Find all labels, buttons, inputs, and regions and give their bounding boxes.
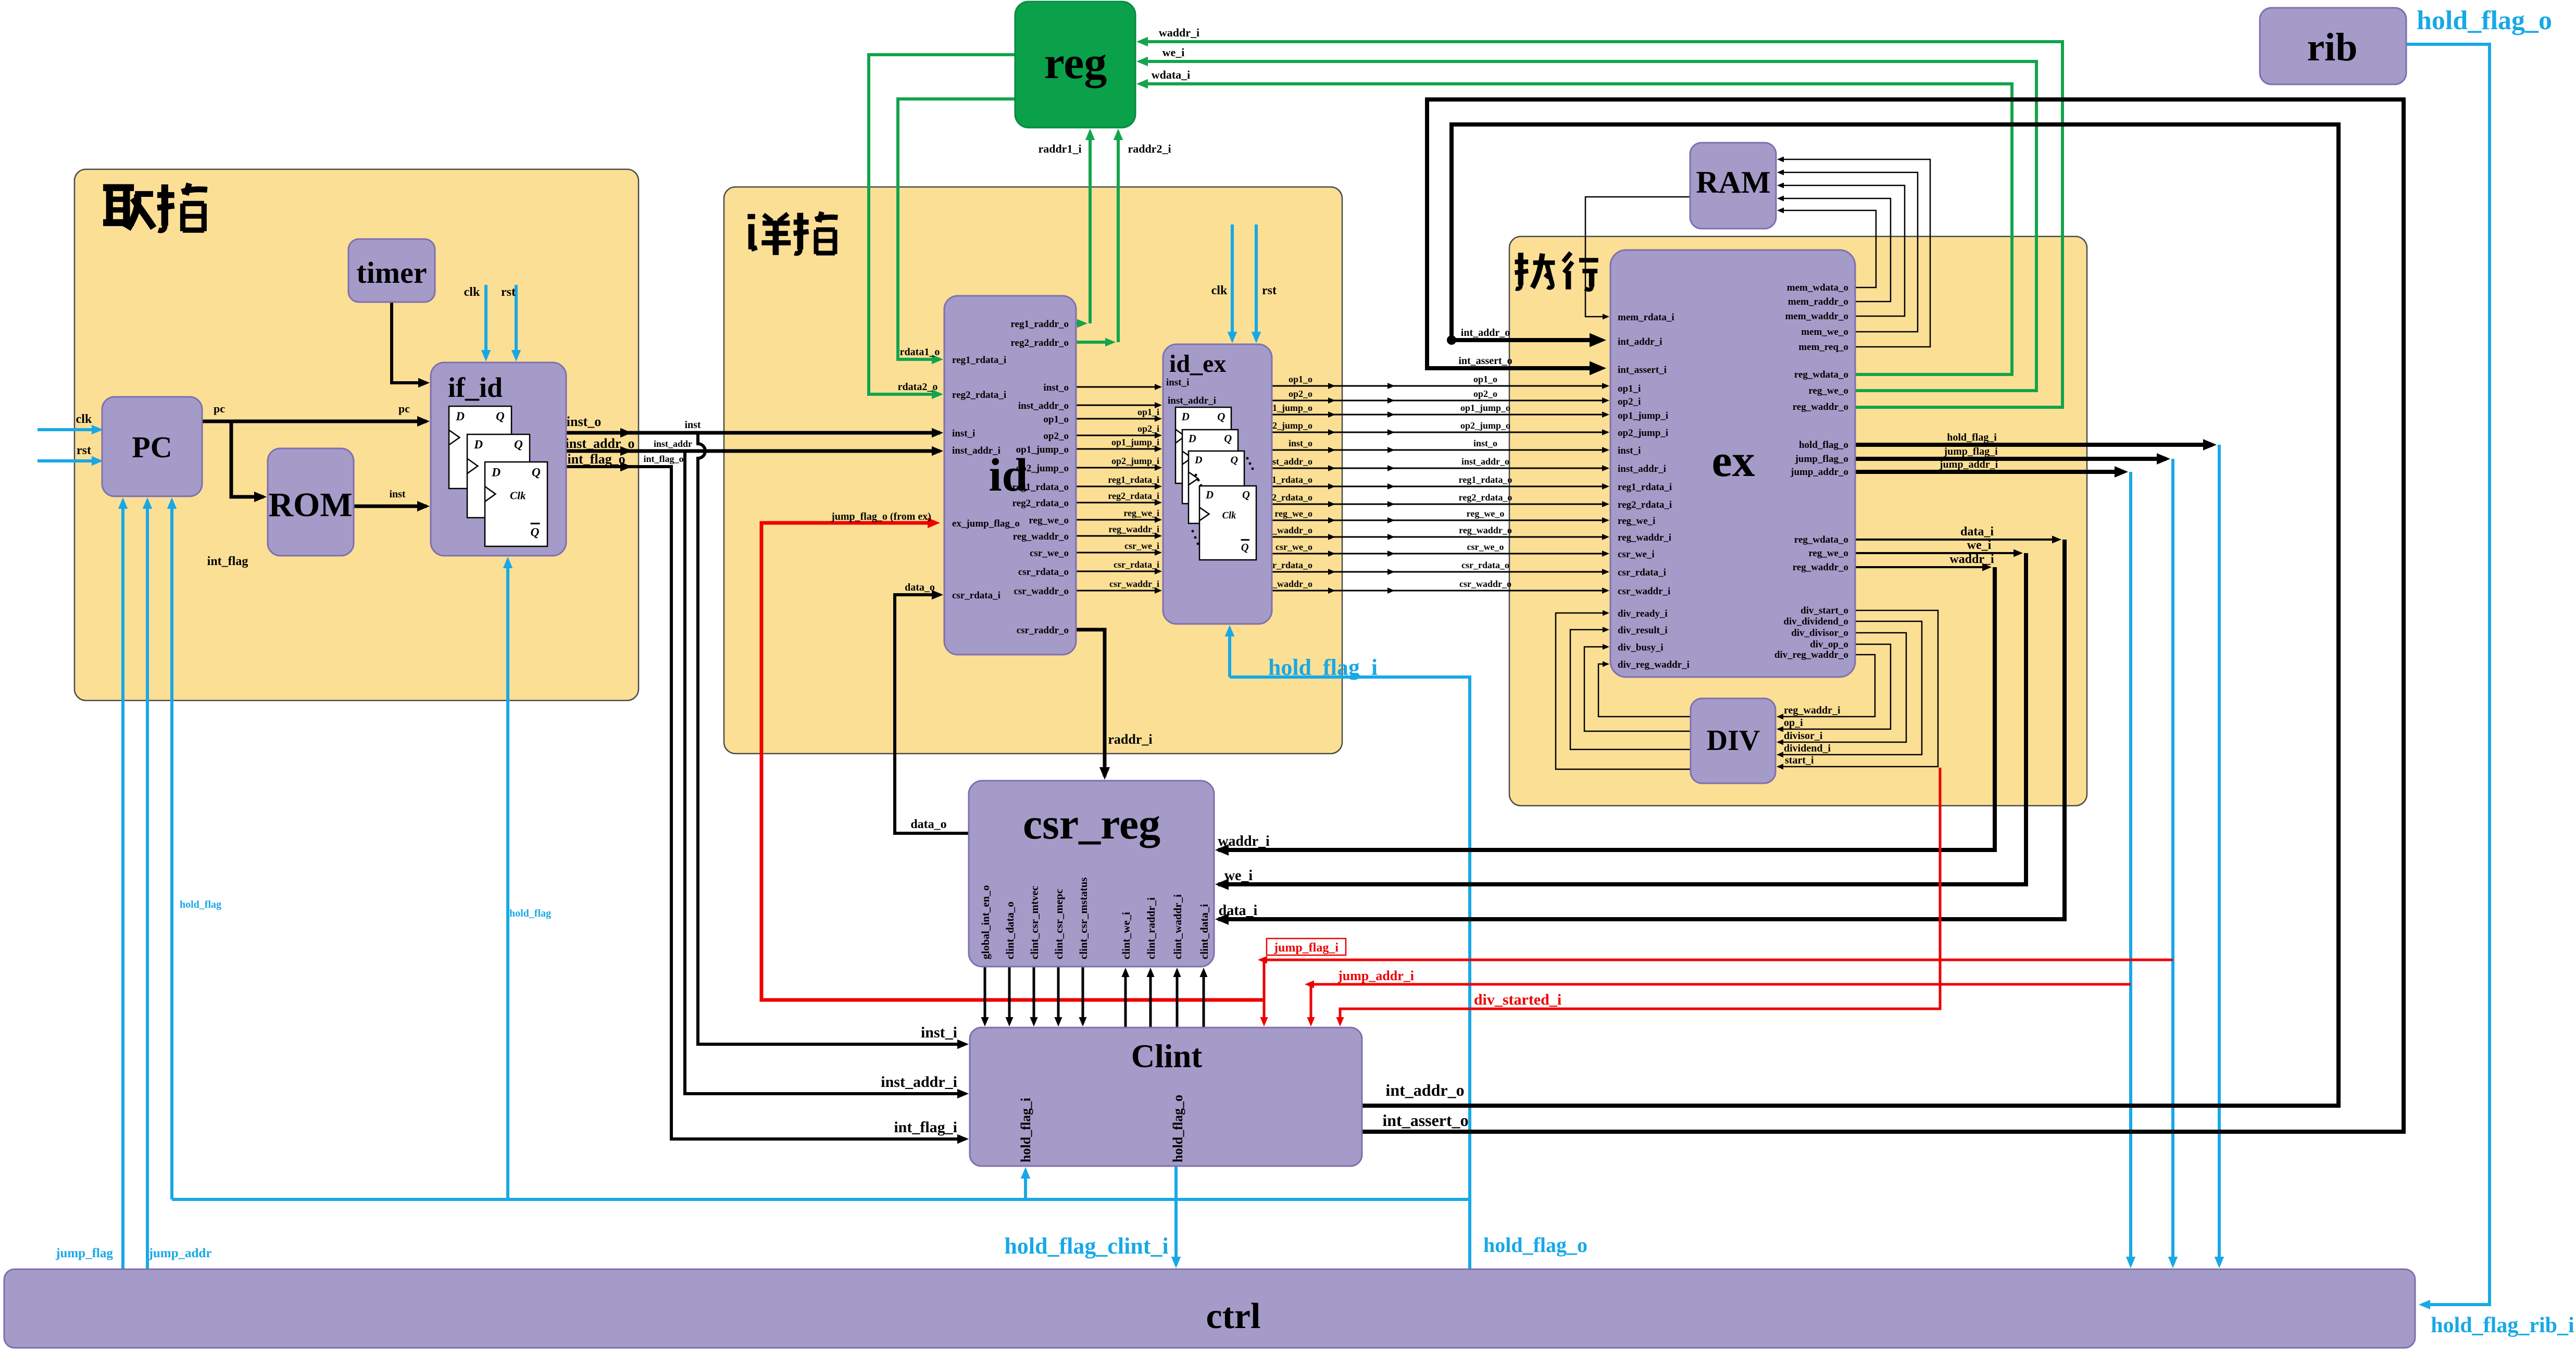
svg-text:clint_csr_mepc: clint_csr_mepc [1053, 889, 1065, 959]
svg-text:div_dividend_o: div_dividend_o [1783, 616, 1848, 627]
wire op2_jump_i id to id_ex [1076, 467, 1159, 469]
svg-text:Clint: Clint [1131, 1038, 1203, 1074]
svg-text:op1_i: op1_i [1618, 383, 1641, 394]
svg-text:reg1_rdata_i: reg1_rdata_i [1108, 474, 1159, 485]
svg-text:clint_raddr_i: clint_raddr_i [1145, 897, 1157, 959]
svg-text:ex: ex [1711, 436, 1755, 486]
wire div_ready DIV to ex [1556, 613, 1691, 769]
svg-text:Q: Q [514, 438, 523, 452]
wire clint_data_o csr_reg to Clint [1008, 967, 1011, 1023]
svg-text:mem_wdata_o: mem_wdata_o [1787, 282, 1848, 293]
svg-text:csr_we_i: csr_we_i [1124, 541, 1159, 551]
svg-text:wdata_i: wdata_i [1152, 68, 1191, 81]
wire reg1_rdata_i id to id_ex [1076, 486, 1159, 487]
svg-text:jump_flag_o: jump_flag_o [1795, 454, 1848, 465]
wire inst_addr id_ex to ex [1272, 468, 1606, 469]
wire div_reg_waddr_o ex to DIV [1780, 655, 1875, 717]
wire jump_flag_o from ex red feedback to id [761, 523, 1264, 1000]
wire reg_we_i id to id_ex [1076, 519, 1159, 521]
wire int_flag_o if_id to Clint [566, 467, 966, 1139]
svg-text:inst_addr_i: inst_addr_i [952, 445, 1001, 456]
svg-text:op1_o: op1_o [1043, 414, 1069, 425]
svg-text:inst_addr_o: inst_addr_o [1461, 456, 1509, 467]
svg-text:start_i: start_i [1785, 755, 1814, 766]
wire div_started_i red to Clint [1340, 768, 1940, 1023]
svg-text:inst_addr_i: inst_addr_i [1618, 464, 1666, 474]
wire mem_req_o ex to RAM [1780, 159, 1930, 347]
svg-text:csr_we_o: csr_we_o [1467, 542, 1504, 552]
svg-text:hold_flag_clint_i: hold_flag_clint_i [1004, 1233, 1168, 1259]
svg-text:ex_jump_flag_o: ex_jump_flag_o [952, 518, 1020, 529]
wire waddr_i ex to reg [1140, 42, 2062, 407]
wire inst_addr_o if_id to id and Clint [566, 449, 940, 453]
svg-text:reg_we_o: reg_we_o [1029, 515, 1069, 526]
svg-text:div_result_i: div_result_i [1618, 625, 1668, 636]
wire pc PC to if_id and ROM [202, 420, 427, 423]
svg-text:csr_we_o: csr_we_o [1276, 542, 1312, 552]
block reg [1015, 2, 1135, 128]
svg-text:clint_data_i: clint_data_i [1198, 904, 1210, 959]
wire div_reg_waddr DIV to ex [1598, 664, 1691, 717]
svg-text:reg_waddr_o: reg_waddr_o [1013, 531, 1069, 542]
svg-text:PC: PC [132, 430, 172, 464]
block ex [1610, 250, 1855, 677]
svg-text:reg_waddr_i: reg_waddr_i [1108, 524, 1159, 534]
svg-text:reg_we_i: reg_we_i [1123, 508, 1159, 518]
wire jump_addr_i red to Clint [1308, 983, 2131, 986]
svg-text:csr_waddr_i: csr_waddr_i [1109, 579, 1159, 589]
wire raddr1_i id to reg [1076, 322, 1083, 325]
svg-text:clk: clk [1211, 284, 1228, 297]
wire div_start_o ex to DIV [1780, 610, 1938, 767]
svg-text:reg_we_o: reg_we_o [1467, 508, 1505, 519]
wire reg2_rdata id_ex to ex [1272, 504, 1606, 505]
wire rst into if_id [515, 285, 518, 358]
wire raddr2_i id to reg [1076, 341, 1111, 344]
wire reg_we id_ex to ex [1272, 520, 1606, 521]
svg-text:int_assert_i: int_assert_i [1618, 365, 1667, 375]
svg-text:csr_rdata_i: csr_rdata_i [1114, 559, 1159, 570]
svg-text:reg_waddr_o: reg_waddr_o [1793, 562, 1848, 573]
svg-text:reg2_raddr_o: reg2_raddr_o [1010, 337, 1069, 348]
wire clint_csr_mepc csr_reg to Clint [1057, 967, 1060, 1023]
svg-text:csr_reg: csr_reg [1023, 800, 1160, 848]
svg-text:pc: pc [214, 402, 225, 415]
svg-text:RAM: RAM [1696, 165, 1770, 199]
svg-text:rst: rst [1262, 284, 1277, 297]
svg-text:data_i: data_i [1960, 525, 1994, 539]
svg-text:if_id: if_id [448, 372, 503, 403]
svg-text:reg1_rdata_o: reg1_rdata_o [1012, 482, 1069, 493]
svg-text:csr_raddr_o: csr_raddr_o [1017, 625, 1069, 636]
svg-text:op1_jump_i: op1_jump_i [1111, 437, 1159, 447]
wire clint_data_i Clint to csr_reg [1203, 971, 1205, 1028]
wire mem_rdata_i RAM to ex [1585, 197, 1690, 317]
stage title zhi-xing (execute) [1515, 253, 1555, 289]
wire div_divisor_o ex to DIV [1780, 633, 1906, 742]
wire clk into id_ex [1231, 224, 1234, 340]
decode stage region box (yi-zhi) [724, 187, 1342, 754]
wire global_int_en_o csr_reg to Clint [984, 967, 986, 1023]
svg-text:inst_addr: inst_addr [654, 439, 692, 449]
block timer [348, 239, 435, 302]
svg-text:global_int_en_o: global_int_en_o [979, 885, 992, 959]
svg-text:clk: clk [464, 285, 480, 299]
svg-text:Clk: Clk [510, 489, 526, 502]
svg-text:op2_o: op2_o [1289, 389, 1312, 399]
svg-text:csr_waddr_i: csr_waddr_i [1618, 586, 1670, 597]
wire jump_flag ex to ctrl vertical [2171, 459, 2174, 1265]
svg-text:rst: rst [77, 444, 91, 457]
svg-text:rdata2_o: rdata2_o [898, 381, 938, 393]
wire reg2_rdata_i id to id_ex [1076, 502, 1159, 504]
wire csr_raddr id to csr_reg [1076, 630, 1105, 777]
svg-text:clk: clk [76, 412, 92, 426]
wire op2 id_ex to ex [1272, 400, 1606, 402]
svg-text:waddr_i: waddr_i [1218, 833, 1270, 849]
wire hold_flag net from ctrl to PC if_id Clint id_ex [1230, 677, 1470, 1269]
svg-text:reg_we_o: reg_we_o [1274, 508, 1312, 519]
svg-text:mem_we_o: mem_we_o [1801, 327, 1848, 337]
wire rdata1_o reg to id [898, 99, 1015, 359]
svg-text:waddr_i: waddr_i [1949, 553, 1994, 566]
svg-text:op2_o: op2_o [1043, 431, 1069, 442]
svg-text:int_addr_o: int_addr_o [1461, 327, 1510, 339]
svg-text:csr_rdata_o: csr_rdata_o [1018, 567, 1069, 578]
svg-text:clint_we_i: clint_we_i [1120, 912, 1132, 959]
svg-text:op2_i: op2_i [1137, 423, 1159, 434]
svg-text:op2_i: op2_i [1618, 396, 1641, 407]
svg-text:div_started_i: div_started_i [1474, 991, 1561, 1008]
svg-text:inst_o: inst_o [1289, 438, 1312, 448]
wire timer to if_id [392, 302, 427, 383]
wire rst into id_ex [1255, 224, 1258, 340]
block PC [102, 397, 202, 496]
svg-text:hold_flag_i: hold_flag_i [1018, 1098, 1033, 1162]
svg-text:ctrl: ctrl [1206, 1296, 1261, 1336]
svg-text:jump_flag_i: jump_flag_i [1943, 446, 1998, 457]
svg-text:jump_addr_i: jump_addr_i [1337, 968, 1414, 983]
svg-text:clint_csr_mtvec: clint_csr_mtvec [1028, 886, 1041, 959]
svg-text:reg1_rdata_o: reg1_rdata_o [1459, 474, 1512, 485]
svg-text:reg_waddr_o: reg_waddr_o [1459, 525, 1512, 535]
wire div_op_o ex to DIV [1780, 644, 1891, 729]
svg-text:Clk: Clk [1222, 510, 1236, 521]
svg-text:op2_o: op2_o [1473, 389, 1497, 399]
svg-text:Q: Q [496, 410, 505, 423]
svg-text:data_i: data_i [1219, 903, 1258, 919]
svg-text:pc: pc [398, 402, 410, 415]
svg-text:op1_jump_o: op1_jump_o [1016, 444, 1069, 455]
wire hold_flag_o ex right [1855, 443, 2212, 447]
svg-text:inst_i: inst_i [1166, 377, 1189, 388]
wire clint_waddr_i Clint to csr_reg [1176, 971, 1179, 1028]
svg-text:D: D [473, 438, 483, 452]
svg-text:jump_flag_i: jump_flag_i [1273, 941, 1339, 955]
block if_id [431, 362, 566, 556]
svg-text:clint_data_o: clint_data_o [1004, 902, 1016, 959]
wire csr_waddr_i id to id_ex [1076, 590, 1159, 592]
svg-text:inst_i: inst_i [1618, 445, 1641, 456]
wire clk into PC [37, 428, 100, 431]
svg-text:csr_rdata_i: csr_rdata_i [1618, 567, 1666, 578]
wire clint_csr_mtvec csr_reg to Clint [1033, 967, 1035, 1023]
svg-text:reg_wdata_o: reg_wdata_o [1794, 534, 1848, 545]
svg-text:id: id [989, 449, 1028, 501]
wire clint_csr_mstatus csr_reg to Clint [1082, 967, 1084, 1023]
wire mem_wdata_o ex to RAM [1780, 210, 1876, 287]
svg-text:int_flag_o: int_flag_o [643, 454, 683, 464]
wire int_assert Clint to ex [1362, 99, 2404, 1132]
svg-text:data_o: data_o [905, 582, 935, 593]
block RAM [1690, 143, 1776, 229]
svg-text:op2_jump_i: op2_jump_i [1618, 428, 1668, 439]
execute stage region box (zhi-xing) [1509, 236, 2087, 806]
svg-text:div_op_o: div_op_o [1810, 639, 1848, 650]
svg-text:Q: Q [531, 526, 540, 540]
wire hold_flag ex to ctrl vertical [2218, 445, 2221, 1265]
wire we_i ex to csr_reg [1855, 552, 2019, 554]
svg-text:csr_we_i: csr_we_i [1618, 549, 1655, 560]
svg-text:clint_csr_mstatus: clint_csr_mstatus [1077, 878, 1090, 959]
svg-text:inst_addr_o: inst_addr_o [566, 436, 635, 451]
svg-text:data_o: data_o [910, 818, 946, 831]
wire we_i ex to reg [1140, 61, 2036, 391]
svg-text:reg: reg [1044, 38, 1107, 89]
wire div_busy DIV to ex [1584, 647, 1691, 731]
svg-text:op1_i: op1_i [1137, 407, 1159, 417]
wire waddr_i ex to csr_reg [1855, 566, 1987, 568]
svg-text:D: D [1188, 433, 1196, 445]
svg-text:reg_waddr_i: reg_waddr_i [1618, 532, 1671, 543]
svg-text:hold_flag_o: hold_flag_o [1483, 1233, 1587, 1257]
svg-text:reg2_rdata_o: reg2_rdata_o [1459, 492, 1512, 503]
block ROM [268, 448, 354, 556]
svg-text:rib: rib [2307, 26, 2357, 69]
svg-text:reg_wdata_o: reg_wdata_o [1794, 369, 1848, 380]
wire data_o csr_reg to id [895, 595, 969, 833]
svg-text:op2_jump_i: op2_jump_i [1111, 456, 1159, 466]
svg-text:mem_raddr_o: mem_raddr_o [1788, 296, 1848, 307]
wire inst id_ex to ex [1272, 449, 1606, 451]
svg-text:reg2_rdata_i: reg2_rdata_i [952, 390, 1006, 400]
svg-text:id_ex: id_ex [1169, 350, 1226, 378]
svg-text:mem_rdata_i: mem_rdata_i [1618, 312, 1674, 323]
svg-text:reg2_rdata_i: reg2_rdata_i [1108, 491, 1159, 501]
svg-text:op2_jump_o: op2_jump_o [1460, 420, 1510, 431]
svg-text:jump_flag: jump_flag [55, 1246, 113, 1260]
wire clk into if_id [484, 285, 487, 358]
wire jump_flag_i red to Clint [1261, 959, 2173, 961]
svg-text:int_flag_o: int_flag_o [567, 452, 625, 467]
svg-text:DIV: DIV [1707, 724, 1760, 757]
svg-text:jump_addr_i: jump_addr_i [1939, 459, 1998, 470]
svg-text:raddr_i: raddr_i [1108, 732, 1152, 747]
svg-text:Q: Q [1242, 490, 1250, 501]
wire div_result DIV to ex [1570, 630, 1691, 749]
wire op1_jump id_ex to ex [1272, 414, 1606, 416]
svg-text:jump_addr_o: jump_addr_o [1790, 467, 1848, 478]
svg-text:op1_jump_i: op1_jump_i [1618, 410, 1668, 421]
boxed label jump_flag_i [1267, 938, 1346, 955]
wire clint_raddr_i Clint to csr_reg [1149, 971, 1152, 1028]
wire wdata_i ex to reg [1140, 84, 2012, 374]
svg-text:hold_flag: hold_flag [180, 899, 221, 910]
wire rst into PC [37, 459, 100, 462]
wire inst_o if_id to id and Clint [566, 431, 940, 435]
svg-text:inst_addr_o: inst_addr_o [1018, 400, 1069, 411]
wire csr_we_i id to id_ex [1076, 552, 1159, 554]
wire csr_rdata_i id to id_ex [1076, 571, 1159, 572]
svg-text:Q: Q [1241, 542, 1249, 554]
svg-text:csr_rdata_i: csr_rdata_i [952, 590, 1001, 601]
svg-text:div_busy_i: div_busy_i [1618, 642, 1664, 653]
svg-text:divisor_i: divisor_i [1784, 730, 1823, 742]
svg-text:int_flag_i: int_flag_i [894, 1119, 957, 1136]
wire csr_we id_ex to ex [1272, 553, 1606, 555]
svg-text:reg_we_o: reg_we_o [1808, 385, 1848, 396]
svg-text:clint_waddr_i: clint_waddr_i [1171, 894, 1184, 959]
wire hold_flag_clint from Clint to ctrl [1174, 1166, 1178, 1265]
block Clint [970, 1028, 1362, 1166]
svg-text:inst_i: inst_i [921, 1024, 957, 1041]
wire op1 id_ex to ex [1272, 385, 1606, 387]
block rib [2260, 8, 2406, 84]
wire inst_i id to id_ex [1076, 386, 1159, 388]
svg-text:csr_waddr_o: csr_waddr_o [1459, 579, 1511, 589]
svg-text:csr_rdata_o: csr_rdata_o [1461, 560, 1509, 570]
block id_ex [1163, 344, 1272, 624]
svg-text:raddr1_i: raddr1_i [1038, 142, 1081, 155]
svg-text:Q: Q [1217, 410, 1225, 423]
svg-text:div_divisor_o: div_divisor_o [1791, 628, 1848, 639]
svg-text:reg1_rdata_i: reg1_rdata_i [952, 355, 1006, 366]
svg-text:div_start_o: div_start_o [1800, 605, 1848, 616]
svg-text:op2_jump_o: op2_jump_o [1016, 463, 1069, 474]
svg-text:hold_flag_o: hold_flag_o [1170, 1095, 1185, 1162]
svg-text:inst_o: inst_o [567, 414, 601, 429]
svg-text:int_assert_o: int_assert_o [1382, 1111, 1468, 1130]
svg-text:inst_o: inst_o [1473, 438, 1497, 448]
svg-text:inst_i: inst_i [952, 428, 975, 439]
wire op1_i id to id_ex [1076, 418, 1159, 420]
svg-text:inst: inst [389, 489, 405, 500]
svg-text:div_reg_waddr_i: div_reg_waddr_i [1618, 659, 1690, 670]
svg-text:op1_o: op1_o [1473, 374, 1497, 384]
wire csr_waddr id_ex to ex [1272, 590, 1606, 592]
svg-text:reg1_rdata_i: reg1_rdata_i [1618, 482, 1672, 493]
block csr_reg [969, 781, 1214, 967]
svg-text:reg_waddr_o: reg_waddr_o [1793, 402, 1848, 412]
wire op1_jump_i id to id_ex [1076, 448, 1159, 450]
svg-text:waddr_i: waddr_i [1159, 26, 1199, 39]
svg-text:we_i: we_i [1224, 868, 1253, 884]
wire int_addr Clint to ex [1362, 124, 2339, 1106]
wire jump_flag ctrl to PC [121, 500, 124, 1269]
fetch stage region box (qu-zhi) [74, 169, 639, 700]
svg-text:int_addr_i: int_addr_i [1618, 336, 1662, 347]
svg-text:hold_flag_rib_i: hold_flag_rib_i [2431, 1313, 2574, 1337]
wire reg_waddr_i id to id_ex [1076, 535, 1159, 537]
svg-text:int_flag: int_flag [207, 555, 248, 568]
svg-text:inst_o: inst_o [1043, 382, 1069, 393]
svg-text:timer: timer [356, 256, 427, 290]
svg-text:raddr2_i: raddr2_i [1128, 142, 1171, 155]
svg-text:int_addr_o: int_addr_o [1385, 1081, 1464, 1099]
block id [944, 296, 1076, 655]
wire csr_rdata id_ex to ex [1272, 571, 1606, 573]
wire jump_flag_o ex right [1855, 457, 2166, 461]
svg-text:mem_req_o: mem_req_o [1798, 342, 1848, 353]
wire data_i ex to csr_reg [1855, 539, 2057, 541]
svg-text:D: D [1181, 410, 1190, 423]
svg-text:D: D [1194, 455, 1203, 466]
svg-text:csr_we_o: csr_we_o [1030, 548, 1069, 559]
svg-text:div_reg_waddr_o: div_reg_waddr_o [1774, 649, 1848, 660]
svg-text:reg1_raddr_o: reg1_raddr_o [1010, 319, 1069, 330]
svg-text:csr_waddr_o: csr_waddr_o [1014, 586, 1069, 597]
wire op2_jump id_ex to ex [1272, 432, 1606, 433]
svg-text:reg2_rdata_i: reg2_rdata_i [1618, 499, 1672, 510]
svg-text:op_i: op_i [1784, 717, 1803, 729]
block ctrl [4, 1269, 2415, 1348]
wire clint_we_i Clint to csr_reg [1124, 971, 1127, 1028]
svg-text:Q: Q [1224, 433, 1232, 445]
svg-text:Q: Q [1230, 455, 1238, 466]
wire mem_raddr_o ex to RAM [1780, 198, 1891, 302]
svg-text:rst: rst [501, 285, 516, 299]
svg-text:op1_jump_o: op1_jump_o [1460, 403, 1510, 413]
svg-text:rdata1_o: rdata1_o [900, 346, 940, 358]
wire inst_addr_i id to id_ex [1076, 405, 1159, 406]
svg-text:we_i: we_i [1162, 46, 1185, 59]
block DIV [1691, 698, 1775, 783]
wire div_dividend_o ex to DIV [1780, 621, 1922, 755]
svg-text:reg_waddr_i: reg_waddr_i [1784, 705, 1841, 716]
svg-text:div_ready_i: div_ready_i [1618, 608, 1668, 619]
svg-text:reg_we_o: reg_we_o [1808, 548, 1848, 559]
svg-text:hold_flag_o: hold_flag_o [2417, 6, 2552, 35]
svg-text:D: D [491, 466, 501, 480]
wire mem_we_o ex to RAM [1780, 172, 1918, 332]
svg-text:inst_addr_i: inst_addr_i [1168, 395, 1216, 406]
wire hold_flag_o from rib to ctrl [2406, 44, 2490, 1305]
svg-text:dividend_i: dividend_i [1784, 743, 1831, 754]
svg-text:jump_flag_o (from ex): jump_flag_o (from ex) [831, 511, 931, 522]
svg-text:hold_flag: hold_flag [509, 908, 551, 919]
svg-text:reg_we_i: reg_we_i [1618, 516, 1655, 527]
svg-text:reg2_rdata_o: reg2_rdata_o [1012, 498, 1069, 509]
svg-text:D: D [1205, 490, 1214, 501]
svg-text:hold_flag_i: hold_flag_i [1947, 432, 1997, 443]
svg-text:int_assert_o: int_assert_o [1458, 355, 1512, 367]
wire op2_i id to id_ex [1076, 435, 1159, 436]
svg-text:inst: inst [684, 419, 701, 431]
stage title yi-zhi (decode) [747, 214, 791, 255]
svg-text:hold_flag_o: hold_flag_o [1799, 440, 1848, 450]
svg-text:hold_flag_i: hold_flag_i [1268, 655, 1378, 680]
svg-text:op1_o: op1_o [1289, 374, 1312, 384]
svg-text:inst_addr_i: inst_addr_i [881, 1073, 957, 1091]
wire mem_waddr_o ex to RAM [1780, 185, 1905, 316]
stage title qu-zhi (fetch) [103, 187, 154, 229]
wire rdata2_o reg to id [869, 55, 1015, 394]
wire jump_addr ctrl to PC [146, 500, 149, 1269]
wire jump_addr_o ex right [1855, 470, 2124, 474]
svg-text:mem_waddr_o: mem_waddr_o [1785, 311, 1848, 322]
svg-text:we_i: we_i [1967, 539, 1992, 552]
wire jump_addr ex to ctrl vertical [2129, 472, 2132, 1265]
